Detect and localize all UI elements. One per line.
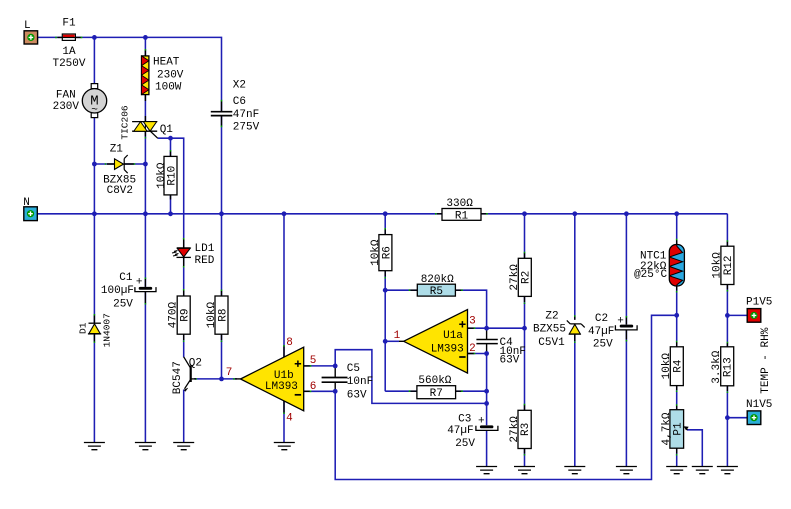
svg-text:275V: 275V bbox=[233, 122, 260, 134]
svg-text:Z1: Z1 bbox=[110, 143, 124, 155]
node rail c2 bbox=[624, 211, 629, 216]
node pin3 c4 bbox=[484, 326, 489, 331]
svg-text:25V: 25V bbox=[113, 299, 133, 311]
wire feedback loop C5 bottom around to NTC node bbox=[335, 315, 676, 479]
svg-text:1N4007: 1N4007 bbox=[102, 313, 113, 347]
ground R13 bbox=[717, 467, 738, 474]
resistor R13 bbox=[711, 347, 734, 386]
ground C3 bbox=[476, 467, 497, 474]
svg-text:470Ω: 470Ω bbox=[168, 301, 180, 328]
node F1-fan junction bbox=[92, 35, 97, 40]
wire pin5 loop over C5 to R7 net bbox=[335, 350, 486, 404]
node Z1 right bbox=[143, 162, 148, 167]
zener Z2 bbox=[567, 320, 585, 334]
node heat top bbox=[143, 35, 148, 40]
capacitor C2 electrolytic bbox=[615, 316, 637, 330]
svg-text:6: 6 bbox=[310, 381, 317, 393]
wire top rail L to C6 corner bbox=[38, 37, 222, 111]
wire D1 line below N rail to ground bbox=[93, 214, 95, 443]
svg-text:47nF: 47nF bbox=[233, 109, 259, 121]
svg-text:R12: R12 bbox=[723, 255, 735, 275]
node Q1 gate junction bbox=[168, 136, 173, 141]
node pin5 c5 bbox=[333, 364, 338, 369]
terminal N1V5 bbox=[747, 411, 761, 425]
svg-text:C1: C1 bbox=[119, 272, 133, 284]
red pin numbers bbox=[226, 316, 476, 425]
svg-text:10kΩ: 10kΩ bbox=[661, 353, 673, 380]
svg-text:HEAT: HEAT bbox=[153, 57, 180, 69]
wire Q1 gate to corner and down through rail to LED bbox=[158, 138, 184, 248]
svg-text:5: 5 bbox=[310, 355, 317, 367]
ground R3 bbox=[514, 467, 535, 474]
node q2 base bbox=[219, 377, 224, 382]
node rail r6 bbox=[383, 211, 388, 216]
resistor R6 bbox=[370, 235, 394, 271]
svg-text:N1V5: N1V5 bbox=[746, 399, 772, 411]
svg-text:230V: 230V bbox=[157, 70, 184, 82]
svg-text:C5V1: C5V1 bbox=[538, 337, 565, 349]
node pin6 c5 bbox=[333, 389, 338, 394]
svg-text:63V: 63V bbox=[500, 354, 520, 366]
wire R2 R3 line x=524.5 bbox=[524, 214, 526, 467]
svg-text:R2: R2 bbox=[520, 271, 532, 284]
ground P1 bbox=[666, 467, 687, 474]
svg-text:BC547: BC547 bbox=[172, 361, 184, 394]
wire U1a pin3 row bbox=[468, 327, 525, 329]
svg-text:BZX55: BZX55 bbox=[533, 324, 566, 336]
svg-text:LM393: LM393 bbox=[265, 381, 298, 393]
svg-text:LD1: LD1 bbox=[195, 243, 215, 255]
zener Z1 bbox=[115, 155, 128, 173]
svg-text:F1: F1 bbox=[62, 18, 76, 30]
wire U1a pin2 bbox=[468, 353, 487, 355]
terminal P1V5 bbox=[747, 309, 761, 323]
resistor R12 bbox=[711, 246, 734, 284]
wire U1b pin5 bbox=[304, 365, 336, 367]
wire U1a pin1 bbox=[385, 340, 399, 342]
wire C4 leads bbox=[486, 328, 488, 353]
led LD1 bbox=[172, 248, 191, 258]
svg-text:FAN: FAN bbox=[56, 90, 76, 102]
svg-text:~: ~ bbox=[91, 105, 98, 117]
svg-text:27kΩ: 27kΩ bbox=[509, 264, 521, 291]
thermistor NTC1 bbox=[669, 244, 685, 287]
svg-text:10kΩ: 10kΩ bbox=[370, 239, 382, 266]
node loop r7 bbox=[484, 401, 489, 406]
svg-text:X2: X2 bbox=[233, 80, 246, 92]
svg-text:P1: P1 bbox=[672, 422, 684, 436]
wire C6 bottom to N rail bbox=[221, 116, 223, 214]
svg-text:1A: 1A bbox=[62, 46, 76, 58]
potentiometer P1 bbox=[661, 410, 689, 449]
node rail r8 bbox=[219, 211, 224, 216]
diode D1 bbox=[88, 323, 101, 334]
svg-text:4: 4 bbox=[286, 413, 293, 425]
svg-text:330Ω: 330Ω bbox=[446, 198, 473, 210]
wire P1 wiper to ground bbox=[687, 430, 702, 467]
svg-text:Z2: Z2 bbox=[545, 311, 558, 323]
wire R7 row y=391.2 bbox=[385, 390, 486, 392]
transistor Q2 bbox=[184, 357, 196, 392]
svg-text:@25°C: @25°C bbox=[634, 269, 667, 281]
svg-text:3: 3 bbox=[469, 316, 476, 328]
svg-text:10kΩ: 10kΩ bbox=[206, 301, 218, 328]
resistor R8 bbox=[206, 296, 230, 334]
node rail r10 bbox=[168, 211, 173, 216]
green connection marks bbox=[56, 37, 727, 456]
svg-text:C6: C6 bbox=[233, 96, 246, 108]
wire node to N1V5 terminal bbox=[727, 417, 747, 419]
capacitor C6 bbox=[211, 112, 233, 116]
wire R12 R13 line x=727.4 bbox=[726, 214, 728, 467]
wire node to P1V5 terminal bbox=[727, 314, 747, 316]
resistor R3 bbox=[509, 410, 532, 448]
svg-text:RED: RED bbox=[195, 255, 215, 267]
fan motor M bbox=[82, 84, 106, 118]
ground U1b pin4 bbox=[274, 443, 295, 450]
svg-text:C2: C2 bbox=[595, 313, 608, 325]
svg-text:P1V5: P1V5 bbox=[746, 297, 772, 309]
svg-text:R8: R8 bbox=[218, 308, 230, 321]
resistor R2 bbox=[509, 258, 532, 296]
svg-text:R9: R9 bbox=[180, 308, 192, 321]
resistor R10 bbox=[156, 156, 179, 195]
svg-text:R13: R13 bbox=[723, 357, 735, 377]
svg-text:Q2: Q2 bbox=[189, 357, 202, 369]
op-amp U1b bbox=[241, 347, 304, 411]
capacitor C5 bbox=[322, 378, 348, 383]
svg-text:3.3kΩ: 3.3kΩ bbox=[711, 350, 723, 383]
svg-text:27kΩ: 27kΩ bbox=[509, 416, 521, 443]
terminal N bbox=[24, 207, 38, 221]
ground wiper bbox=[692, 467, 713, 474]
svg-text:C5: C5 bbox=[347, 363, 360, 375]
wire R5 row y=290.2 bbox=[385, 290, 486, 328]
svg-text:2: 2 bbox=[469, 343, 476, 355]
wire LED to R9 to Q2 collector bbox=[183, 258, 185, 358]
svg-text:TIC206: TIC206 bbox=[119, 105, 130, 140]
svg-text:TEMP - RH%: TEMP - RH% bbox=[760, 327, 772, 393]
ground C2 bbox=[616, 467, 637, 474]
svg-text:25V: 25V bbox=[455, 438, 475, 450]
node rail pin8 bbox=[282, 211, 287, 216]
svg-text:T250V: T250V bbox=[52, 58, 85, 70]
svg-text:R10: R10 bbox=[167, 166, 179, 186]
svg-text:100W: 100W bbox=[155, 82, 182, 94]
node r2 r3 bbox=[522, 326, 527, 331]
black lead stubs bbox=[58, 37, 728, 453]
svg-text:63V: 63V bbox=[347, 390, 367, 402]
node Z1 left bbox=[92, 162, 97, 167]
svg-text:1: 1 bbox=[394, 330, 401, 342]
wire N rail y=213.8 bbox=[37, 213, 727, 215]
wire NTC R4 P1 line x=676.7 bbox=[676, 214, 678, 467]
ground symbols bbox=[84, 443, 738, 474]
wire C4 node down to C3 bbox=[486, 354, 488, 467]
ground Q2 bbox=[173, 443, 194, 450]
node rail r2 bbox=[522, 211, 527, 216]
svg-text:Q1: Q1 bbox=[160, 124, 174, 136]
node n1v5 bbox=[725, 415, 730, 420]
svg-text:R4: R4 bbox=[672, 359, 684, 373]
node pin2 c4 bbox=[484, 351, 489, 356]
resistor R1 bbox=[442, 198, 481, 223]
svg-text:R6: R6 bbox=[381, 246, 393, 259]
svg-text:R3: R3 bbox=[520, 423, 532, 436]
wire R8 line x=221.5 bbox=[221, 214, 223, 379]
wire U1b pin4 to ground bbox=[283, 401, 285, 443]
node ntc bottom bbox=[674, 313, 679, 318]
svg-text:820kΩ: 820kΩ bbox=[421, 274, 454, 286]
svg-text:D1: D1 bbox=[77, 322, 88, 334]
capacitor C1 electrolytic bbox=[135, 277, 156, 292]
op-amp U1a bbox=[404, 310, 468, 374]
node rail d1 bbox=[92, 211, 97, 216]
wire R10 x=170.5 bbox=[170, 138, 172, 214]
heater HEAT bbox=[142, 56, 149, 95]
capacitor C4 bbox=[476, 340, 497, 344]
svg-text:C8V2: C8V2 bbox=[107, 185, 133, 197]
wire U1b pin6 bbox=[304, 390, 336, 392]
ground Z2 bbox=[564, 467, 585, 474]
capacitor C3 electrolytic bbox=[476, 415, 498, 430]
resistor R7 bbox=[417, 375, 456, 400]
wire Z2 line x=574.8 bbox=[574, 214, 576, 467]
svg-text:47µF: 47µF bbox=[588, 326, 614, 338]
svg-text:10kΩ: 10kΩ bbox=[711, 252, 723, 279]
triac Q1 bbox=[132, 122, 158, 139]
wire motor bottom to N rail bbox=[93, 117, 95, 214]
svg-text:R5: R5 bbox=[430, 286, 443, 298]
terminal L bbox=[24, 31, 37, 44]
svg-text:+: + bbox=[617, 316, 624, 328]
fuse F1 bbox=[62, 34, 75, 40]
wire C5 leads bbox=[334, 366, 336, 391]
wire R6 line x=385.2 bbox=[384, 214, 386, 391]
svg-text:+: + bbox=[478, 415, 485, 427]
node rail ntc bbox=[674, 211, 679, 216]
resistor R5 bbox=[417, 274, 455, 298]
svg-text:C3: C3 bbox=[458, 413, 471, 425]
wire Q2 base to U1b pin7 bbox=[194, 378, 237, 380]
wire Z1 horizontal y=164 bbox=[94, 163, 145, 165]
svg-text:7: 7 bbox=[226, 367, 233, 379]
svg-text:R1: R1 bbox=[455, 210, 469, 222]
ground D1 bbox=[84, 443, 105, 450]
svg-text:8: 8 bbox=[286, 337, 293, 349]
node rail c1 bbox=[143, 211, 148, 216]
svg-text:R7: R7 bbox=[430, 388, 443, 400]
wire Q2 emitter to ground bbox=[183, 390, 185, 443]
svg-text:47µF: 47µF bbox=[447, 425, 473, 437]
svg-text:U1a: U1a bbox=[443, 330, 463, 342]
node pin1 bbox=[383, 339, 388, 344]
svg-text:230V: 230V bbox=[53, 101, 80, 113]
svg-text:L: L bbox=[24, 20, 31, 32]
svg-text:25V: 25V bbox=[593, 339, 613, 351]
svg-text:100µF: 100µF bbox=[101, 285, 134, 297]
node r5 left bbox=[383, 288, 388, 293]
svg-text:LM393: LM393 bbox=[431, 344, 464, 356]
resistor R9 bbox=[168, 296, 192, 334]
svg-text:10nF: 10nF bbox=[347, 376, 373, 388]
svg-text:+: + bbox=[136, 277, 143, 289]
wire HEAT line x=145.4 bbox=[144, 37, 146, 213]
node r7 right bbox=[484, 389, 489, 394]
resistor R4 bbox=[661, 347, 684, 386]
wire motor line x=94.4 top bbox=[93, 37, 95, 84]
node rail z2 bbox=[572, 211, 577, 216]
svg-text:4,7kΩ: 4,7kΩ bbox=[661, 412, 673, 445]
wire C2 line x=626.4 bbox=[625, 214, 627, 467]
svg-text:N: N bbox=[23, 197, 30, 209]
svg-text:560kΩ: 560kΩ bbox=[418, 375, 451, 387]
wire U1b pin8 supply bbox=[283, 214, 285, 357]
wire C1 line below N rail bbox=[144, 214, 146, 443]
ground C1 bbox=[135, 443, 156, 450]
node p1v5 bbox=[725, 313, 730, 318]
